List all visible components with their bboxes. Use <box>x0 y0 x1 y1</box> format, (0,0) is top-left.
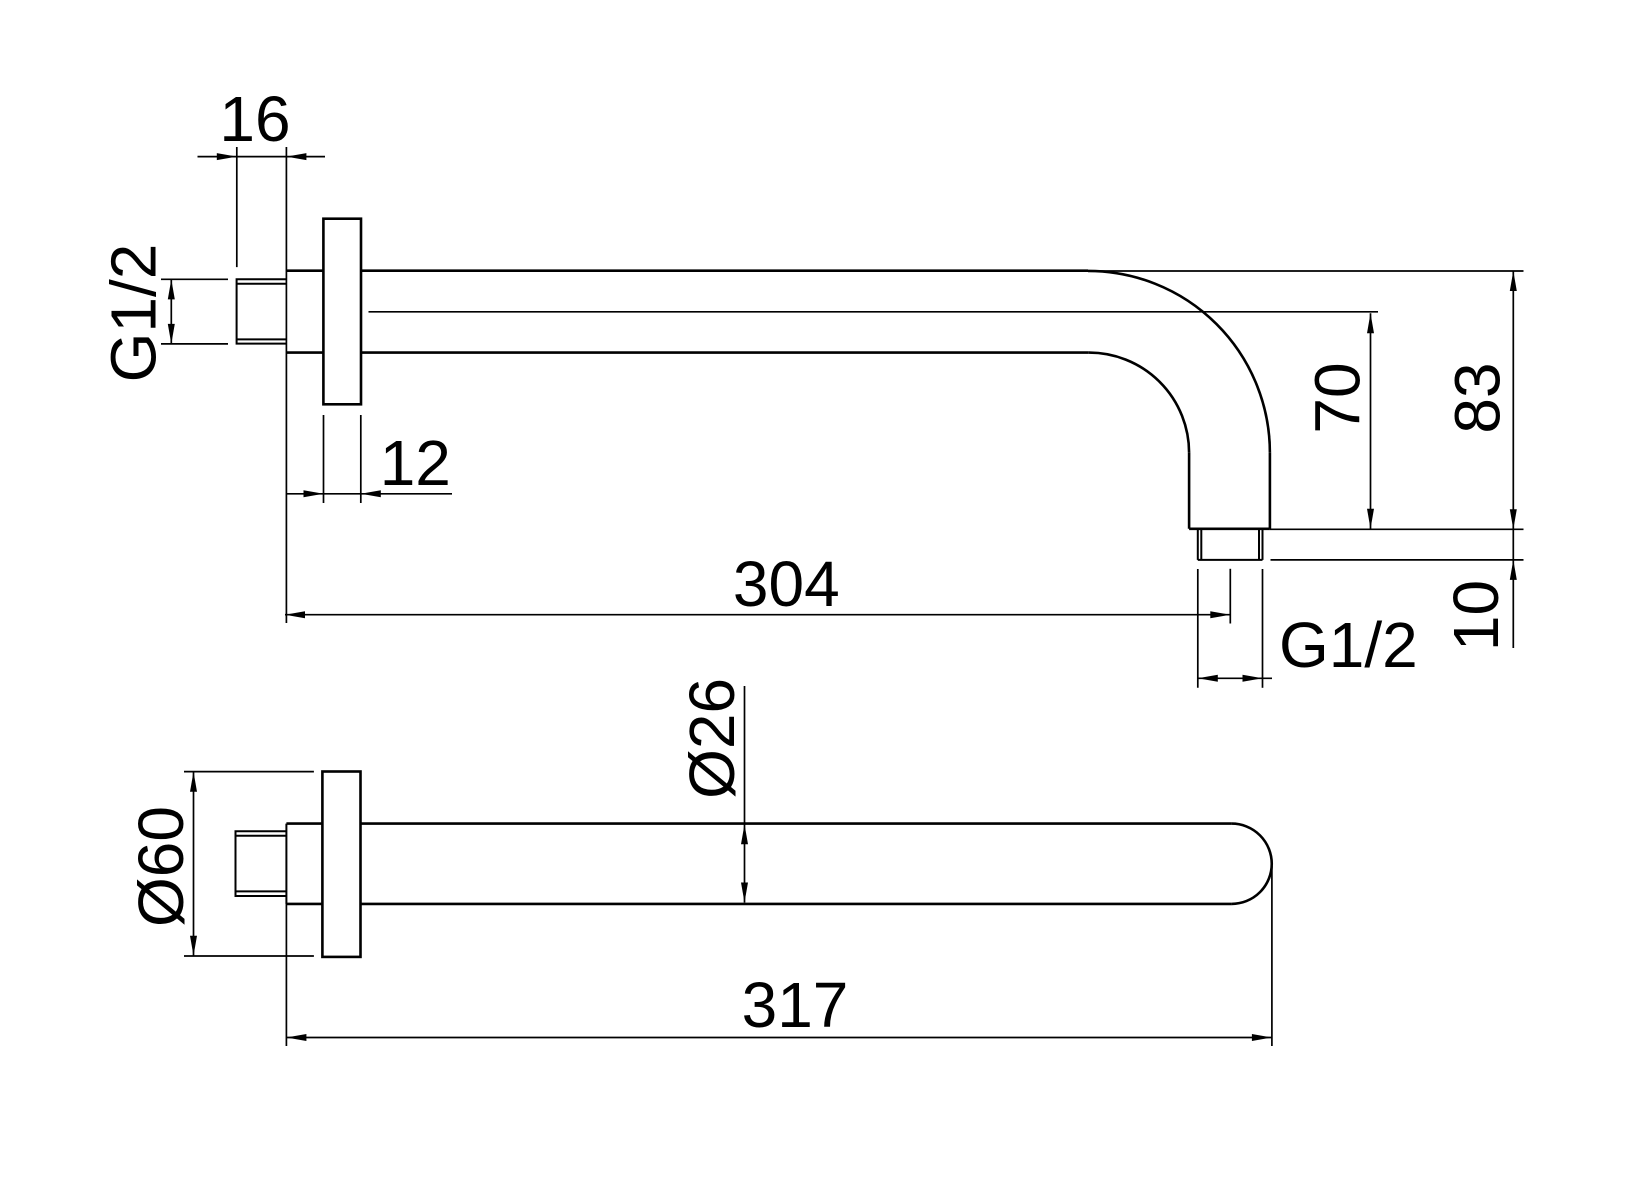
svg-text:16: 16 <box>219 83 290 155</box>
dimension 10 extension line <box>1271 559 1524 561</box>
dimension 16 extension line left <box>236 147 238 267</box>
tube bottom outline <box>286 351 323 354</box>
plan wall flange (escutcheon) <box>322 772 360 957</box>
svg-text:G1/2: G1/2 <box>1279 609 1418 681</box>
dimension 70 arrowheads <box>1367 313 1374 333</box>
dimension 83 line <box>1512 271 1514 529</box>
dimension 304 line <box>285 614 1230 616</box>
svg-text:304: 304 <box>733 548 840 620</box>
outlet thread G1/2 outer lines <box>1197 529 1199 560</box>
plan tube top outline <box>286 822 322 825</box>
dimension 12 extension lines <box>323 415 325 503</box>
dimension O60 extension lines <box>184 771 314 773</box>
plan thread nipple G1/2 outline <box>236 831 287 896</box>
outlet left edge <box>1188 453 1191 529</box>
outlet right edge <box>1269 453 1272 529</box>
dimension 317 extension line right <box>1271 866 1273 1046</box>
svg-text:Ø26: Ø26 <box>676 678 748 799</box>
svg-text:317: 317 <box>742 969 849 1041</box>
wall flange (escutcheon) side view <box>323 219 361 405</box>
svg-text:Ø60: Ø60 <box>125 806 197 927</box>
tube axis line <box>369 311 1379 313</box>
plan thread core lines <box>236 835 287 837</box>
dimension 317 extension line left <box>285 903 287 1046</box>
plan tube rounded end cap <box>1232 824 1272 904</box>
dimension O60 arrowheads <box>190 772 197 792</box>
dimension 12 arrowheads <box>304 490 324 497</box>
dimension G1/2 bottom line <box>1198 677 1272 679</box>
dimension 83 top extension line <box>1090 270 1524 272</box>
wall face extension line <box>285 147 287 623</box>
dimension 16 line <box>198 156 326 158</box>
dimension 304 arrowheads <box>285 611 305 618</box>
svg-text:70: 70 <box>1302 362 1374 433</box>
plan tube bottom outline <box>286 903 322 906</box>
dimension G1/2 bottom extension lines <box>1197 569 1199 688</box>
dimension 10 line <box>1512 529 1514 648</box>
outlet thread end cap <box>1198 559 1263 561</box>
svg-text:G1/2: G1/2 <box>98 244 170 383</box>
plan tube left end face at wall <box>285 824 287 904</box>
dimension G1/2 bottom arrowheads <box>1198 675 1218 682</box>
outlet end face <box>1189 527 1270 530</box>
dimension O26 arrowheads <box>741 824 748 844</box>
dimension 10 arrowhead <box>1510 560 1517 580</box>
dimension 83 bottom extension line <box>1270 528 1524 530</box>
left thread nipple G1/2 outline <box>237 279 287 343</box>
outlet thread core lines <box>1200 529 1202 560</box>
svg-text:83: 83 <box>1442 362 1514 433</box>
dimension 83 arrowheads <box>1510 271 1517 291</box>
elbow outer arc <box>1088 271 1270 453</box>
dimension 70 line <box>1370 313 1372 529</box>
dimension 304 extension line right <box>1229 569 1231 624</box>
dimension 12 line <box>286 493 452 495</box>
tube top outline <box>286 269 323 272</box>
dimension O60 line <box>193 772 195 956</box>
left thread core lines <box>237 283 287 285</box>
elbow inner arc <box>1089 353 1189 453</box>
dimension G1/2 left extension lines <box>161 278 228 280</box>
svg-text:10: 10 <box>1440 580 1512 651</box>
dimension O26 line <box>744 686 746 903</box>
dimension 317 arrowheads <box>286 1034 306 1041</box>
dimension 16 arrowheads <box>217 153 237 160</box>
dimension G1/2 left line <box>170 279 172 344</box>
dimension 317 line <box>286 1037 1272 1039</box>
svg-text:12: 12 <box>380 427 451 499</box>
dimension G1/2 left arrowheads <box>168 279 175 299</box>
